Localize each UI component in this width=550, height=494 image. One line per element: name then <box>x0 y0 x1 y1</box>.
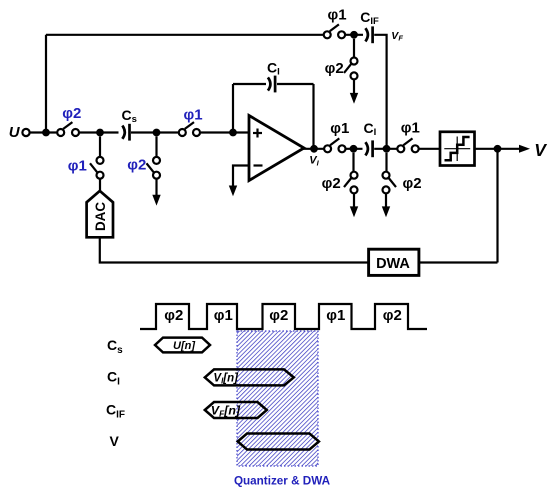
svg-text:DWA: DWA <box>376 256 410 272</box>
wire CI feedback right vertical <box>312 84 314 149</box>
capacitor CIF <box>365 28 368 41</box>
capacitor Ci <box>365 142 368 155</box>
svg-text:φ2: φ2 <box>164 307 183 324</box>
switch S9 phi2 Ci left ground <box>352 153 354 172</box>
quantizer Q1 <box>440 132 475 166</box>
timing hatch region <box>237 331 318 466</box>
svg-text:VI[n]: VI[n] <box>213 373 239 386</box>
ground Ci left <box>353 193 355 207</box>
switch S3 phi1 output <box>324 145 331 152</box>
switch S6 phi2 CIF ground <box>353 39 355 58</box>
svg-text:Cs: Cs <box>122 107 137 125</box>
node CIF junction <box>350 31 358 39</box>
wire DAC to DWA bottom <box>100 237 368 262</box>
svg-text:VF: VF <box>391 30 403 43</box>
svg-text:Quantizer & DWA: Quantizer & DWA <box>234 475 331 488</box>
node V output junction <box>494 145 502 153</box>
hexagon U[n] <box>155 338 210 353</box>
svg-text:φ1: φ1 <box>184 107 203 124</box>
wire switch to CIF <box>345 34 363 36</box>
switch S10 phi2 Ci right ground <box>385 153 387 172</box>
svg-text:φ2: φ2 <box>322 175 341 192</box>
switch S1 phi2 input <box>57 129 64 136</box>
wire DWA to output node <box>419 261 498 263</box>
op-amp U1 <box>249 116 304 181</box>
svg-text:φ2: φ2 <box>269 307 288 324</box>
wire quantizer output <box>475 148 521 150</box>
svg-text:V: V <box>534 140 547 160</box>
svg-text:φ2: φ2 <box>62 105 81 122</box>
ground Cs branch <box>155 179 157 196</box>
arrow V output <box>519 145 530 153</box>
wire Ci to phi1 switch <box>374 148 397 150</box>
svg-text:φ1: φ1 <box>214 307 233 324</box>
ground op-amp minus <box>229 186 237 197</box>
svg-text:CI: CI <box>364 120 377 138</box>
svg-text:φ1: φ1 <box>68 157 87 174</box>
wire feedforward top <box>46 34 324 36</box>
switch S7 phi1 DAC <box>99 137 101 157</box>
hexagon VI[n] <box>205 369 294 385</box>
hexagon VF[n] <box>205 402 267 418</box>
wire CI feedback top right <box>277 83 314 85</box>
svg-text:DAC: DAC <box>93 202 108 231</box>
wire to quantizer <box>419 148 440 150</box>
svg-text:φ2: φ2 <box>127 156 146 173</box>
node op-amp input junction <box>229 129 237 137</box>
wire op-amp output <box>303 148 324 150</box>
wire CI feedback top left <box>233 83 266 85</box>
node DAC branch junction <box>96 129 104 137</box>
DWA block <box>369 249 419 275</box>
wire V to DWA vertical <box>496 149 498 263</box>
switch S8 phi2 Cs ground <box>155 137 157 157</box>
svg-text:U[n]: U[n] <box>173 340 195 352</box>
switch S4 phi1 quantizer <box>397 145 404 152</box>
svg-text:Cs: Cs <box>107 337 123 356</box>
svg-text:φ1: φ1 <box>330 120 349 137</box>
svg-text:φ1: φ1 <box>328 6 347 23</box>
clock waveform <box>140 304 427 329</box>
node Vi output junction <box>310 145 318 153</box>
wire CIF to VF vertical <box>374 35 386 147</box>
node Ci right junction <box>383 145 391 153</box>
wire to Ci cap <box>346 148 363 150</box>
svg-text:U: U <box>9 124 21 141</box>
ground Ci right <box>385 193 387 207</box>
hexagon V valid <box>238 434 319 450</box>
switch S2 phi1 <box>179 129 186 136</box>
svg-text:φ2: φ2 <box>325 60 344 77</box>
wire switch to Cs <box>79 131 119 133</box>
svg-text:CIF: CIF <box>106 402 125 421</box>
svg-text:CIF: CIF <box>360 9 379 27</box>
node Ci left junction <box>350 145 358 153</box>
wire feedforward vertical <box>45 35 47 133</box>
node input junction <box>42 129 50 137</box>
ground CIF <box>353 79 355 93</box>
wire op-amp minus input <box>233 166 249 187</box>
wire CI feedback left vertical <box>232 84 234 130</box>
svg-text:φ1: φ1 <box>326 307 345 324</box>
svg-text:φ1: φ1 <box>401 120 420 137</box>
svg-text:CI: CI <box>267 59 280 77</box>
svg-text:VF[n]: VF[n] <box>211 404 241 419</box>
wire input to phi2 switch <box>30 131 57 133</box>
node U input terminal <box>22 129 29 136</box>
wire to op-amp <box>201 131 249 133</box>
svg-text:VI: VI <box>309 154 319 167</box>
svg-text:CI: CI <box>107 369 120 388</box>
node ground branch junction <box>153 129 161 137</box>
wire Cs to phi1 switch <box>131 131 179 133</box>
switch S5 phi1 top feedback <box>324 31 331 38</box>
capacitor Cs <box>122 126 125 139</box>
DAC D1 <box>87 191 113 237</box>
capacitor CI <box>268 77 271 90</box>
svg-text:V: V <box>110 433 120 449</box>
svg-text:φ2: φ2 <box>403 175 422 192</box>
svg-text:φ2: φ2 <box>383 307 402 324</box>
